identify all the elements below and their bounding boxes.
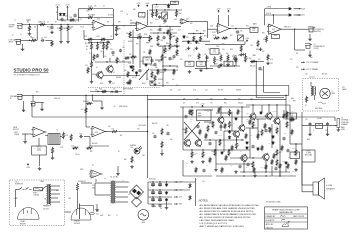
- svg-text:C5: C5: [80, 19, 82, 21]
- svg-text:D2: D2: [128, 194, 130, 196]
- power transformer T1 aux winding: [50, 185, 51, 205]
- svg-text:DWG NO: DWG NO: [266, 227, 274, 229]
- svg-text:PWR AMP: PWR AMP: [10, 95, 17, 98]
- svg-text:R137: R137: [292, 148, 295, 150]
- capacitor C50: [208, 142, 211, 146]
- junction: [202, 149, 203, 150]
- wire feedback mid 2: [94, 17, 113, 19]
- resistor R121: [287, 163, 289, 169]
- ground R101: [153, 83, 157, 86]
- svg-text:MJE: MJE: [246, 113, 249, 115]
- junction: [285, 95, 286, 96]
- ground R98b: [126, 81, 130, 84]
- svg-text:C32: C32: [204, 54, 207, 56]
- svg-text:1K: 1K: [89, 53, 91, 55]
- wire ps left rail: [147, 182, 149, 204]
- diode D22: [165, 198, 168, 202]
- resistor R28: [220, 54, 222, 61]
- wire pa w5: [204, 139, 244, 141]
- svg-text:OPTO: OPTO: [145, 58, 150, 60]
- resistor R43: [90, 61, 92, 68]
- svg-text:OPTO: OPTO: [140, 61, 145, 63]
- svg-text:TO: TO: [314, 44, 317, 46]
- svg-text:100: 100: [250, 135, 252, 137]
- wire rev drive in: [22, 133, 32, 135]
- svg-text:T2: T2: [56, 130, 58, 132]
- svg-text:ALL RESISTORS 5% CARBON FILM U: ALL RESISTORS 5% CARBON FILM UNLESS NOTE…: [200, 210, 254, 213]
- wire R15 to pot: [143, 36, 150, 38]
- svg-text:C5 .05: C5 .05: [80, 27, 84, 29]
- svg-text:C21: C21: [176, 55, 179, 57]
- convenience outlet P2: [71, 208, 91, 220]
- wire T1 sec tap3: [116, 191, 129, 193]
- junction: [214, 149, 215, 150]
- wire PS rail mid1: [148, 189, 172, 191]
- svg-text:SAT: SAT: [133, 8, 136, 11]
- svg-text:LDR: LDR: [174, 19, 177, 21]
- wire Q1 up: [109, 58, 111, 62]
- wire +15 rail end: [294, 8, 302, 10]
- ground D5: [195, 47, 199, 50]
- capacitor C60: [274, 167, 277, 171]
- svg-text:C67: C67: [152, 133, 155, 135]
- resistor R129: [231, 145, 233, 151]
- capacitor C28: [111, 51, 114, 55]
- svg-text:+15V: +15V: [136, 3, 141, 5]
- wire stage link: [148, 25, 182, 27]
- svg-text:10K: 10K: [227, 64, 230, 66]
- junction: [164, 45, 165, 46]
- diode D5: [195, 40, 198, 44]
- junction: [220, 65, 221, 66]
- wire R3 gnd: [60, 32, 62, 40]
- wire -15 rail: [265, 14, 288, 16]
- svg-text:GND: GND: [96, 211, 99, 213]
- ground R39: [266, 62, 270, 65]
- wire pa w7: [230, 157, 262, 159]
- wire pa v8: [279, 160, 281, 176]
- svg-text:C14: C14: [231, 26, 234, 28]
- wire pa r123: [283, 110, 285, 114]
- svg-text:(LOOP): (LOOP): [314, 48, 320, 50]
- reverb driver transformer T2: [48, 134, 60, 145]
- wire R89 gnd: [161, 149, 163, 152]
- svg-text:REV: REV: [274, 35, 277, 37]
- svg-text:C12: C12: [178, 30, 181, 32]
- svg-text:.001: .001: [86, 11, 89, 13]
- wire aux gnd: [117, 166, 119, 172]
- svg-text:B+ SUPPLY: B+ SUPPLY: [89, 174, 97, 176]
- wire U1A out: [105, 24, 113, 26]
- junction: [152, 189, 153, 190]
- resistor R13: [87, 38, 94, 40]
- capacitor C11: [163, 19, 166, 23]
- svg-text:LOW: LOW: [188, 56, 192, 58]
- title block frame: [265, 207, 308, 229]
- wire speaker -: [302, 191, 313, 193]
- resistor R42: [102, 43, 104, 50]
- svg-text:C53: C53: [305, 119, 308, 121]
- resistor R10: [51, 40, 53, 46]
- svg-text:R52 10K: R52 10K: [218, 90, 223, 92]
- resistor R88: [161, 128, 163, 135]
- wire C3 to R10: [46, 39, 53, 41]
- wire U2B out: [188, 20, 198, 22]
- svg-text:D1: D1: [128, 182, 130, 184]
- svg-text:150K: 150K: [144, 34, 147, 36]
- capacitor C73: [73, 14, 76, 18]
- svg-text:C28: C28: [110, 49, 113, 51]
- resistor R59: [70, 134, 72, 141]
- ground mid: [100, 106, 104, 109]
- resistor R131: [253, 167, 255, 173]
- power terminal eq: [246, 40, 248, 42]
- svg-text:1N4448: 1N4448: [126, 83, 131, 85]
- terminal +36V: [174, 181, 178, 183]
- transistor Q8: [232, 130, 239, 138]
- wire box to outlet: [65, 211, 72, 213]
- resistor R122: [209, 157, 211, 163]
- svg-text:R87: R87: [120, 135, 123, 137]
- svg-text:AND T SERIES A-D PATENT NO. (: AND T SERIES A-D PATENT NO. (CIRCLED): [200, 225, 245, 228]
- power terminal PA: [202, 105, 204, 107]
- wire pa v6: [271, 124, 273, 148]
- junction: [157, 69, 158, 70]
- resistor R68: [276, 127, 278, 134]
- svg-text:SW1: SW1: [68, 198, 71, 200]
- svg-text:1 W: 1 W: [210, 103, 213, 105]
- junction: [159, 196, 160, 197]
- svg-text:+15V: +15V: [155, 7, 160, 9]
- wire U6 feed: [85, 95, 87, 127]
- svg-text:150: 150: [196, 153, 198, 155]
- ground R23: [175, 45, 179, 48]
- wire eq bus: [182, 40, 210, 42]
- svg-text:POST: POST: [212, 32, 216, 34]
- svg-text:TREB: TREB: [252, 55, 256, 57]
- ground aux: [116, 172, 120, 175]
- svg-text:47K: 47K: [183, 99, 186, 101]
- svg-text:R4 470: R4 470: [47, 27, 52, 29]
- svg-text:D19: D19: [296, 67, 299, 69]
- svg-text:10K: 10K: [170, 139, 173, 141]
- wire pa w3: [204, 121, 213, 123]
- resistor R70: [286, 121, 288, 128]
- resistor R6: [87, 16, 94, 18]
- svg-text:BIAS: BIAS: [198, 112, 201, 115]
- wire pa v7: [279, 121, 281, 160]
- svg-text:220K: 220K: [170, 30, 173, 32]
- resistor R132: [273, 153, 275, 159]
- resistor R102: [218, 107, 220, 113]
- svg-text:+15V: +15V: [301, 8, 306, 10]
- wire tank in: [310, 82, 312, 86]
- resistor R125: [189, 109, 191, 115]
- wire U5 to box: [38, 138, 40, 146]
- svg-text:4.7K: 4.7K: [104, 56, 107, 58]
- svg-text:C20: C20: [100, 51, 103, 53]
- resistor R73: [191, 151, 193, 158]
- power terminal +15V b: [67, 6, 69, 8]
- wire pa gnd1: [215, 164, 217, 168]
- svg-text:Q1: Q1: [96, 67, 98, 69]
- capacitor C73 filter: [158, 183, 162, 187]
- junction: [159, 181, 160, 182]
- ground J6: [40, 108, 44, 111]
- svg-text:C79: C79: [282, 161, 285, 163]
- svg-text:C37: C37: [290, 59, 293, 61]
- svg-text:C18: C18: [250, 45, 253, 47]
- wire feedback top 1: [78, 8, 87, 10]
- jack J7 ext speaker: [335, 119, 340, 128]
- svg-text:(PRE DRIVE): (PRE DRIVE): [123, 89, 133, 91]
- potentiometer R16 pre gain: [149, 35, 151, 42]
- svg-text:115 VOLT: 115 VOLT: [43, 209, 49, 211]
- svg-text:+15V: +15V: [200, 104, 205, 106]
- diode D8: [288, 7, 292, 10]
- switch S1a: [19, 187, 25, 189]
- ground R26: [239, 53, 243, 56]
- diode D17: [246, 146, 249, 149]
- diode D26: [285, 161, 288, 164]
- svg-text:R136: R136: [232, 56, 235, 58]
- svg-text:C61: C61: [186, 163, 189, 165]
- potentiometer HIGH boxed: [224, 61, 233, 66]
- wire pa v3: [231, 113, 233, 131]
- title block header: [272, 208, 300, 213]
- svg-text:R22: R22: [230, 35, 233, 37]
- svg-text:C35: C35: [196, 99, 199, 101]
- svg-text:4558: 4558: [272, 29, 275, 31]
- wire eq corner v: [206, 55, 208, 69]
- resistor R113: [85, 107, 87, 114]
- svg-text:1N4448: 1N4448: [236, 90, 241, 92]
- junction: [91, 42, 92, 43]
- svg-text:C9: C9: [143, 18, 145, 20]
- resistor R99: [164, 47, 166, 54]
- junction: [29, 40, 30, 41]
- junction: [252, 127, 253, 128]
- resistor R38: [250, 60, 255, 62]
- svg-text:ALL DIODES 1N4148 OR 1N4448 UN: ALL DIODES 1N4148 OR 1N4448 UNLESS NOTED: [200, 216, 251, 219]
- svg-text:MJE: MJE: [246, 119, 249, 121]
- svg-text:T.B. 120 VAC: T.B. 120 VAC: [110, 176, 118, 179]
- resistor R1: [28, 25, 30, 32]
- resistor R81: [295, 149, 297, 156]
- junction: [243, 171, 244, 172]
- wire pa w8: [216, 163, 252, 165]
- junction: [265, 171, 266, 172]
- svg-text:2.2K: 2.2K: [71, 146, 74, 148]
- svg-text:4 OHM: 4 OHM: [317, 118, 322, 120]
- wire supply rail left: [264, 9, 266, 26]
- junction: [152, 196, 153, 197]
- wire U4 out: [281, 28, 295, 30]
- svg-text:.1: .1: [141, 15, 142, 17]
- ground PA3: [234, 170, 238, 173]
- resistor R4: [67, 25, 69, 32]
- resistor R3: [60, 25, 62, 32]
- wire pa v4: [249, 128, 251, 158]
- svg-text:C13: C13: [157, 30, 160, 32]
- svg-text:117V: 117V: [93, 176, 96, 178]
- power transformer T1 primary winding: [47, 185, 48, 205]
- wire PA left rail up: [182, 107, 184, 122]
- svg-text:C27: C27: [178, 90, 181, 92]
- wire pa v1: [215, 140, 217, 164]
- wire J3 gnd: [309, 34, 311, 38]
- svg-text:DRIVE: DRIVE: [15, 134, 20, 136]
- wire R4 gnd: [67, 32, 69, 40]
- junction: [157, 32, 158, 33]
- resistor R140: [149, 49, 151, 55]
- diode D20: [165, 183, 168, 187]
- junction: [176, 9, 177, 10]
- svg-text:+16V 1N4448: +16V 1N4448: [138, 125, 146, 127]
- svg-text:R26: R26: [246, 26, 249, 28]
- capacitor C74 filter: [158, 191, 162, 195]
- svg-text:R45: R45: [158, 61, 161, 63]
- transistor Q9: [183, 139, 191, 147]
- capacitor C3: [41, 39, 45, 42]
- svg-text:C29: C29: [113, 89, 116, 91]
- svg-text:C31: C31: [219, 53, 222, 55]
- svg-text:560: 560: [172, 79, 174, 81]
- svg-text:R41: R41: [96, 57, 99, 59]
- svg-text:C65: C65: [166, 125, 169, 127]
- diode D4: [187, 40, 190, 44]
- transistor Q4: [238, 124, 245, 132]
- resistor R115: [189, 195, 191, 200]
- resistor R74: [202, 151, 204, 158]
- svg-text:R38 22K: R38 22K: [250, 66, 255, 68]
- wire pa w1: [204, 109, 213, 111]
- wire pd right mid: [150, 69, 178, 71]
- reverb transformer primary: [311, 87, 312, 96]
- svg-text:J1: J1: [14, 20, 16, 22]
- resistor R79: [276, 149, 278, 156]
- svg-text:+15V: +15V: [145, 3, 150, 5]
- junction: [257, 149, 258, 150]
- svg-text:470K: 470K: [69, 17, 72, 19]
- svg-text:1N: 1N: [66, 16, 68, 18]
- svg-text:C3 10: C3 10: [37, 150, 41, 152]
- capacitor C21: [172, 55, 175, 59]
- svg-text:10: 10: [246, 167, 248, 169]
- svg-text:MAIN: MAIN: [341, 126, 344, 129]
- svg-text:0.33: 0.33: [293, 153, 296, 155]
- resistor R17: [169, 33, 171, 40]
- resistor R84: [72, 147, 79, 149]
- diode D21: [165, 191, 168, 195]
- wire Q8 e: [236, 137, 238, 142]
- resistor R45: [161, 54, 163, 61]
- wire preout to jack: [295, 28, 309, 30]
- capacitor C77: [158, 204, 161, 208]
- LED CR1: [134, 146, 142, 154]
- junction: [252, 157, 253, 158]
- diode D27: [145, 63, 148, 66]
- junction: [103, 42, 104, 43]
- svg-text:10K: 10K: [290, 175, 292, 177]
- power transformer T1 primary: [111, 181, 112, 203]
- wire mix bus 2 vertical: [263, 73, 265, 93]
- svg-text:R7: R7: [56, 12, 58, 14]
- resistor R107: [269, 127, 271, 133]
- resistor R75: [214, 149, 216, 156]
- capacitor C62: [238, 165, 241, 169]
- op-amp U5 reverb driver: [32, 127, 47, 137]
- wire out to spk drop: [301, 126, 303, 144]
- wire PA right rail: [289, 105, 291, 144]
- diode D11: [228, 136, 231, 140]
- svg-text:1K: 1K: [86, 49, 88, 51]
- resistor R123: [283, 113, 285, 119]
- wire power amp feed: [285, 95, 287, 110]
- wire -15 rail end: [294, 14, 302, 16]
- jack J5 pwr amp in: [17, 94, 24, 99]
- svg-text:GAIN: GAIN: [158, 45, 161, 48]
- wire C53 gnd: [309, 127, 311, 133]
- svg-text:10K: 10K: [240, 31, 243, 33]
- fuse F1: [34, 188, 44, 191]
- wire pa r81 link: [295, 144, 297, 150]
- svg-text:SPKR: SPKR: [341, 129, 345, 131]
- svg-text:ALL RESISTANCE VALUES EXPRESSE: ALL RESISTANCE VALUES EXPRESSED IN OHMS …: [200, 204, 260, 207]
- capacitor C1: [50, 26, 53, 30]
- svg-text:C22: C22: [112, 83, 115, 85]
- resistor R130: [225, 155, 227, 161]
- junction: [147, 116, 148, 117]
- resistor R96: [106, 43, 108, 50]
- svg-text:U1A: U1A: [97, 18, 100, 21]
- svg-text:GND: GND: [179, 204, 183, 206]
- wire to R8: [113, 24, 116, 26]
- wire U2A out up: [147, 10, 149, 25]
- ground Q2: [90, 80, 94, 83]
- svg-text:-15V TO PREAMP: -15V TO PREAMP: [306, 68, 318, 71]
- wire PA gnd: [254, 172, 256, 174]
- diode D24: [257, 147, 260, 150]
- svg-text:2 OHM: 2 OHM: [306, 153, 312, 155]
- svg-text:1K: 1K: [255, 125, 257, 127]
- svg-text:R96: R96: [112, 55, 115, 57]
- svg-text:T1: T1: [116, 215, 118, 217]
- svg-text:PRE OUT: PRE OUT: [284, 27, 291, 29]
- wire speaker bus corner: [31, 102, 33, 117]
- junction: [176, 45, 177, 46]
- wire link b: [139, 33, 141, 68]
- resistor R108: [281, 145, 283, 151]
- ground R90: [130, 165, 134, 168]
- svg-text:10K: 10K: [81, 109, 83, 111]
- svg-text:4.7K: 4.7K: [85, 65, 88, 67]
- svg-text:.022: .022: [44, 37, 47, 39]
- capacitor C33: [258, 67, 261, 71]
- diode D1: [59, 13, 62, 16]
- dashed divider: [123, 40, 125, 95]
- svg-text:68K: 68K: [118, 22, 121, 24]
- resistor R133: [157, 69, 159, 75]
- resistor R98: [127, 71, 129, 78]
- wire Q7 c: [276, 105, 278, 118]
- reverb squiggle: [318, 102, 326, 104]
- resistor R23: [176, 37, 178, 44]
- jack J2 low input: [16, 39, 23, 44]
- wire T1 tap a: [51, 185, 60, 187]
- junction: [191, 149, 192, 150]
- power terminal +15V a: [57, 6, 59, 8]
